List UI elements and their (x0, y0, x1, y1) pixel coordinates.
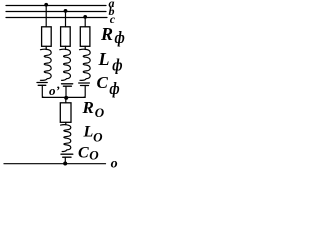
capacitor Cф branch 1 bottom plate (38, 84, 46, 86)
wire branch 1 drop from line a (45, 6, 47, 27)
wire branch 2 capacitor to bus (65, 86, 67, 97)
wire branch 3 drop from line c (84, 18, 86, 27)
capacitor Cф branch 3 bottom plate (81, 85, 89, 87)
svg-text:o’: o’ (49, 83, 60, 98)
inductor Lф branch 1 (40, 46, 51, 80)
resistor Rф branch 2 (61, 27, 71, 47)
svg-text:L: L (83, 124, 94, 141)
wire branch 1 capacitor to bus (42, 85, 43, 97)
resistor Ro (60, 103, 71, 123)
svg-text:ф: ф (109, 80, 119, 98)
svg-text:o: o (111, 157, 118, 172)
junction dot on line a (44, 3, 48, 7)
svg-text:R: R (100, 24, 113, 44)
svg-text:L: L (98, 49, 110, 69)
wire: bus o' (42, 96, 85, 98)
resistor Rф branch 1 (42, 27, 52, 47)
junction dot on bottom line o (63, 162, 67, 166)
wire capacitor Co to bottom line (64, 157, 66, 164)
capacitor Co top plate (61, 153, 73, 155)
junction dot on line c (83, 15, 87, 19)
capacitor Cф branch 2 bottom plate (63, 85, 71, 87)
wire: phase line b (6, 11, 106, 13)
junction dot node o' on bus (64, 96, 68, 100)
svg-text:O: O (93, 129, 103, 144)
wire: phase line a (6, 5, 106, 7)
capacitor Cф branch 2 top plate (62, 83, 73, 85)
wire branch 2 drop from line b (65, 12, 67, 27)
svg-text:O: O (95, 105, 105, 120)
svg-text:ф: ф (112, 56, 122, 74)
svg-text:C: C (78, 145, 89, 162)
wire: phase line c (6, 17, 107, 19)
inductor Lo (61, 122, 71, 151)
wire: bottom neutral line o (4, 163, 106, 165)
inductor Lф branch 3 (80, 46, 91, 80)
wire branch 3 capacitor to bus (84, 86, 85, 98)
svg-text:ф: ф (115, 29, 125, 47)
capacitor Cф branch 1 top plate (37, 82, 47, 84)
wire bus to resistor Ro (65, 97, 67, 102)
resistor Rф branch 3 (80, 27, 90, 47)
svg-text:C: C (97, 73, 109, 92)
junction dot on line b (64, 9, 68, 13)
svg-text:O: O (89, 148, 99, 163)
capacitor Cф branch 3 top plate (79, 82, 90, 84)
svg-text:R: R (82, 98, 94, 117)
inductor Lф branch 2 (60, 46, 71, 80)
capacitor Co bottom plate (63, 156, 71, 158)
